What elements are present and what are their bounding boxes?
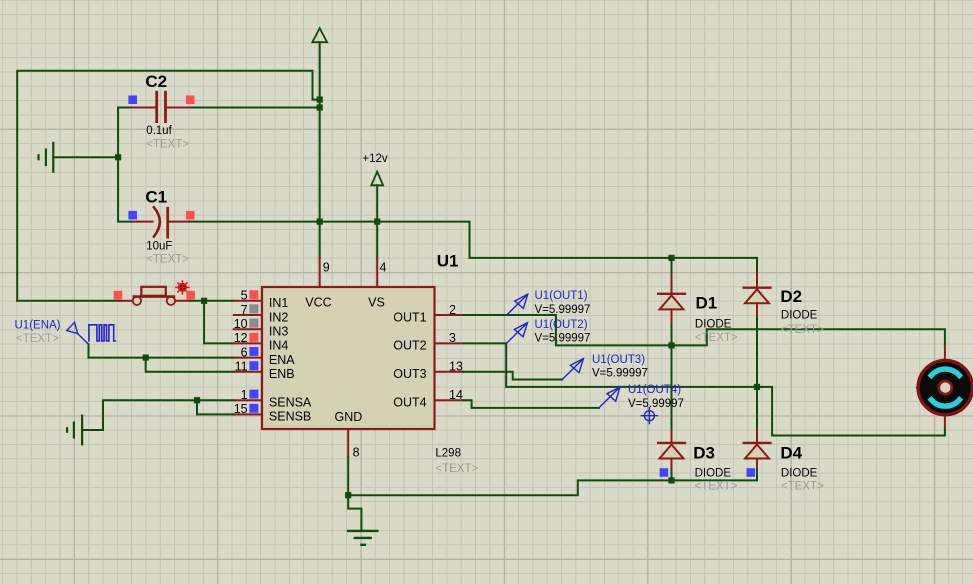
svg-text:13: 13 <box>449 360 463 374</box>
svg-text:SENSA: SENSA <box>269 396 312 410</box>
pin 8 stub GND <box>347 429 349 457</box>
svg-text:1: 1 <box>241 388 248 402</box>
probe U1(OUT2) <box>506 319 590 345</box>
node junction C2 right <box>317 104 323 110</box>
svg-text:OUT3: OUT3 <box>393 367 426 381</box>
svg-text:ENB: ENB <box>269 367 295 381</box>
wire switch to IN1 <box>190 300 234 302</box>
handle square left of switch <box>114 291 123 300</box>
svg-text:D2: D2 <box>780 287 802 306</box>
motor top pin <box>944 345 946 361</box>
svg-text:U1(OUT1): U1(OUT1) <box>535 290 588 302</box>
wire button row from loop to switch <box>17 300 119 302</box>
svg-text:OUT1: OUT1 <box>393 310 426 324</box>
svg-text:DIODE: DIODE <box>781 310 818 322</box>
svg-text:7: 7 <box>241 303 248 317</box>
svg-text:D1: D1 <box>696 294 718 313</box>
ground symbol lower left <box>67 416 103 445</box>
svg-text:DIODE: DIODE <box>781 467 818 479</box>
wire OUT3 stub with probe <box>435 371 464 373</box>
svg-text:VCC: VCC <box>305 296 331 310</box>
node junction SENSA/SENSB <box>194 397 200 403</box>
ground symbol top left <box>39 143 119 172</box>
node junction D1 bottom <box>668 342 674 348</box>
probe U1(OUT4) <box>599 384 684 410</box>
svg-text:5: 5 <box>241 289 248 303</box>
svg-text:GND: GND <box>335 410 363 424</box>
wire C2 right connection <box>190 107 320 109</box>
handle square D3 <box>660 468 669 477</box>
diode D1 <box>658 258 738 346</box>
node junction GND rail <box>345 492 351 498</box>
wire C1 right to VCC rail and +12v rail to diodes <box>189 222 757 273</box>
wire OUT2 to motor bottom via D2/D4 column <box>435 342 465 344</box>
svg-text:D4: D4 <box>780 444 802 463</box>
svg-text:<TEXT>: <TEXT> <box>435 463 478 475</box>
svg-text:<TEXT>: <TEXT> <box>146 138 189 150</box>
node junction D2-D4 column <box>754 384 760 390</box>
wire ground to SENSA <box>103 400 234 430</box>
svg-text:IN3: IN3 <box>269 325 289 339</box>
svg-text:10uF: 10uF <box>146 240 172 252</box>
svg-text:L298: L298 <box>435 448 461 460</box>
generator arrow pennant <box>67 322 89 344</box>
ground symbol bottom center <box>348 531 377 545</box>
wire OUT1 to motor top with D1 tap <box>435 314 465 316</box>
node junction ENA/ENB <box>143 355 149 361</box>
switch actuator red marker <box>176 281 189 294</box>
svg-text:C2: C2 <box>145 72 167 91</box>
svg-text:OUT2: OUT2 <box>393 339 426 353</box>
node junction ground rail <box>115 154 121 160</box>
power symbol VCC top arrow <box>312 28 327 42</box>
wire SENSA-SENSB link <box>197 400 234 414</box>
wire VCC stem down from arrow <box>319 42 321 258</box>
origin marker <box>641 408 657 424</box>
wire switch right pin <box>175 300 190 302</box>
svg-text:3: 3 <box>449 331 456 345</box>
switch pushbutton <box>133 287 175 305</box>
svg-text:14: 14 <box>449 388 463 402</box>
wire generator to ENA <box>89 344 234 357</box>
svg-text:DIODE: DIODE <box>695 467 732 479</box>
handle square right of switch <box>186 291 195 300</box>
svg-text:VS: VS <box>368 296 385 310</box>
probe U1(OUT1) <box>507 290 591 316</box>
svg-text:<TEXT>: <TEXT> <box>781 480 824 492</box>
pin numbers left <box>234 289 248 417</box>
wire C2 left connection <box>118 107 132 109</box>
probe U1(OUT3) <box>562 354 648 380</box>
svg-text:SENSB: SENSB <box>269 410 311 424</box>
svg-text:15: 15 <box>234 402 248 416</box>
svg-text:10: 10 <box>234 317 248 331</box>
generator pulse waveform icon <box>89 325 116 341</box>
svg-text:2: 2 <box>449 303 456 317</box>
pin 4 stub VS <box>376 258 378 288</box>
svg-text:D3: D3 <box>693 444 715 463</box>
svg-text:12: 12 <box>234 331 248 345</box>
wire OUT4 stub with probe <box>435 399 464 401</box>
svg-text:<TEXT>: <TEXT> <box>781 324 824 336</box>
wire GND rail to diodes D3 D4 <box>348 480 757 495</box>
svg-text:+12v: +12v <box>362 153 388 165</box>
pin stubs left of U1 <box>234 301 262 415</box>
svg-text:IN4: IN4 <box>269 339 289 353</box>
node junction D3 bottom <box>668 477 674 483</box>
diode D2 <box>744 273 824 430</box>
node junction VCC loop <box>317 97 323 103</box>
node junction +12v rail <box>374 219 380 225</box>
svg-text:ENA: ENA <box>269 353 295 367</box>
wire GND pin down <box>348 457 361 530</box>
motor bottom pin <box>944 414 946 427</box>
svg-text:C1: C1 <box>145 187 167 206</box>
svg-text:<TEXT>: <TEXT> <box>146 253 189 265</box>
svg-text:U1(OUT2): U1(OUT2) <box>535 319 588 331</box>
op-amp U1 L298 chip body <box>262 287 435 429</box>
motor <box>917 360 973 414</box>
svg-text:U1: U1 <box>437 251 459 270</box>
svg-text:4: 4 <box>380 261 387 275</box>
svg-text:9: 9 <box>323 261 330 275</box>
svg-text:U1(OUT4): U1(OUT4) <box>628 384 681 396</box>
svg-text:V=5.99997: V=5.99997 <box>628 398 684 410</box>
node junction C1-VCC <box>317 219 323 225</box>
U1 chip pin labels <box>269 296 427 424</box>
wire IN1-IN4 link <box>204 301 234 344</box>
svg-text:OUT4: OUT4 <box>393 396 426 410</box>
svg-text:IN1: IN1 <box>269 296 289 310</box>
svg-text:6: 6 <box>241 345 248 359</box>
wire ENA-ENB link <box>146 358 234 372</box>
svg-text:V=5.99997: V=5.99997 <box>592 368 648 380</box>
wire left rail C2 to C1 <box>118 108 132 222</box>
svg-text:8: 8 <box>353 446 360 460</box>
diode D4 <box>744 430 824 493</box>
svg-text:0.1uf: 0.1uf <box>146 125 172 137</box>
svg-text:11: 11 <box>235 360 248 374</box>
svg-text:V=5.99997: V=5.99997 <box>535 304 591 316</box>
pin handle squares left <box>249 290 258 299</box>
node junction IN1/IN4 <box>201 298 207 304</box>
svg-text:IN2: IN2 <box>269 310 289 324</box>
node junction D1 top <box>668 255 674 261</box>
svg-text:V=5.99997: V=5.99997 <box>535 333 591 345</box>
svg-text:<TEXT>: <TEXT> <box>695 480 738 492</box>
svg-text:<TEXT>: <TEXT> <box>695 332 738 344</box>
power symbol +12v arrow <box>362 153 388 258</box>
svg-text:<TEXT>: <TEXT> <box>16 333 59 345</box>
capacitor C1 <box>128 187 194 265</box>
svg-text:DIODE: DIODE <box>695 319 732 331</box>
wire top-left loop from button row to VCC rail <box>17 71 320 301</box>
diode D3 <box>658 345 738 492</box>
handle square D4 <box>747 468 756 477</box>
svg-text:U1(OUT3): U1(OUT3) <box>592 354 645 366</box>
svg-text:U1(ENA): U1(ENA) <box>15 320 61 332</box>
pin 9 stub VCC <box>319 258 321 288</box>
capacitor C2 <box>128 72 194 150</box>
wire switch left pin <box>119 300 133 302</box>
